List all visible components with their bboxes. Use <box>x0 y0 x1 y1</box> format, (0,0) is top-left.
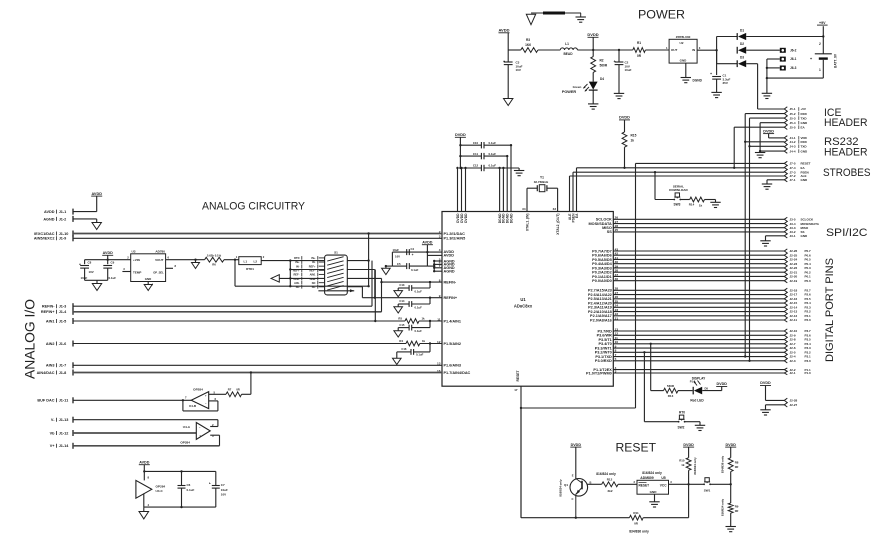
wire U3 OP_SEL stub <box>166 267 173 269</box>
diode D3 <box>716 50 718 64</box>
svg-text:DVDD: DVDD <box>571 443 582 447</box>
svg-text:560R: 560R <box>600 63 608 67</box>
svg-text:U4-B: U4-B <box>189 404 197 408</box>
svg-text:0.1uF: 0.1uF <box>411 268 419 272</box>
svg-text:AVDD: AVDD <box>444 254 455 258</box>
svg-text:1k: 1k <box>422 339 426 343</box>
svg-text:P1.7/AIN4/DAC: P1.7/AIN4/DAC <box>444 371 471 375</box>
wire RESET pin down <box>520 386 522 518</box>
svg-text:OP284: OP284 <box>180 441 190 445</box>
svg-text:J1-13: J1-13 <box>59 418 69 422</box>
svg-text:REFIN+: REFIN+ <box>444 296 458 300</box>
wire U3 TEMP stub <box>122 271 130 273</box>
wire AIN1 jog <box>374 270 376 322</box>
svg-text:SW1: SW1 <box>704 489 711 493</box>
wire AIN2 line <box>73 343 406 345</box>
svg-text:L1: L1 <box>565 42 569 46</box>
svg-text:TXD: TXD <box>801 145 808 149</box>
svg-text:VOUT: VOUT <box>155 258 164 262</box>
capacitor C5 <box>392 265 406 267</box>
svg-text:32.768kHz: 32.768kHz <box>534 180 549 184</box>
svg-text:C8: C8 <box>88 261 92 265</box>
wire P2.4 <box>613 302 784 304</box>
svg-text:+: + <box>503 60 505 64</box>
IC U3 AD780 <box>131 254 166 282</box>
wire P2.0 <box>613 319 784 321</box>
crystal Y1 32.768kHz <box>526 188 528 211</box>
svg-text:HEADER: HEADER <box>824 146 868 158</box>
svg-text:J7-4: J7-4 <box>790 166 796 170</box>
op-amp U4-A OP284 <box>196 423 210 440</box>
svg-text:AIN-: AIN- <box>294 281 299 285</box>
connector J6-3 pad <box>780 66 786 71</box>
wire Vb line <box>73 432 196 434</box>
wire RESET vertical net <box>635 163 637 408</box>
svg-text:J5-3: J5-3 <box>790 116 796 120</box>
wire S1 row B drop <box>374 270 376 298</box>
svg-text:U3: U3 <box>132 249 136 253</box>
wire S1 row C drop <box>381 278 383 311</box>
svg-text:U4-C: U4-C <box>156 489 164 493</box>
wire SPI GND <box>766 235 785 237</box>
svg-text:D4: D4 <box>600 77 604 81</box>
svg-text:R10: R10 <box>679 458 685 462</box>
wire DGND pins to caps <box>499 168 501 212</box>
ground J1-2 <box>92 223 101 230</box>
regulator U2 ZR78L030 <box>669 39 697 63</box>
svg-text:P1.0/T2/PWM0: P1.0/T2/PWM0 <box>586 371 612 375</box>
battery BATT_9V <box>822 26 824 53</box>
svg-text:5.62k 0.1%: 5.62k 0.1% <box>207 254 222 258</box>
svg-text:REFIN-: REFIN- <box>444 280 457 284</box>
wire strobe GND <box>767 179 784 181</box>
svg-text:10uF: 10uF <box>625 68 632 72</box>
ground below C3 <box>504 99 513 106</box>
ground decoupling <box>518 168 520 171</box>
svg-text:J6-2: J6-2 <box>790 48 797 52</box>
svg-text:1k: 1k <box>699 204 703 208</box>
wire ICE +5V <box>758 108 785 110</box>
svg-text:AIN5/IEXC2: AIN5/IEXC2 <box>34 237 55 241</box>
svg-text:DGND: DGND <box>509 213 513 223</box>
svg-text:GND: GND <box>801 149 809 153</box>
connector J4 RS232 bracket <box>784 136 787 154</box>
wire R11 to node <box>643 517 688 519</box>
svg-text:816/824 only: 816/824 only <box>596 472 616 476</box>
svg-text:J1-4: J1-4 <box>59 310 67 314</box>
svg-text:P0.0: P0.0 <box>805 279 812 283</box>
wire PSEN pin up <box>572 172 574 211</box>
wire D4 to ground <box>592 91 594 104</box>
capacitor C6 <box>181 471 183 485</box>
svg-text:AD780: AD780 <box>155 249 165 253</box>
node P3.4 display tap <box>650 343 652 345</box>
wire P3.3 <box>613 347 784 349</box>
wire R6 to RTD1 <box>224 259 239 261</box>
svg-text:-: - <box>199 425 200 429</box>
wire P2.2 <box>613 311 784 313</box>
svg-text:J1-12: J1-12 <box>59 431 69 435</box>
wire U4-A pin2 wrap <box>217 420 219 427</box>
svg-text:C4: C4 <box>411 247 415 251</box>
svg-text:4: 4 <box>439 248 441 252</box>
svg-text:J4-4: J4-4 <box>790 149 796 153</box>
svg-text:REF+: REF+ <box>309 264 316 268</box>
wire REFIN- jog up <box>371 261 373 307</box>
svg-text:36: 36 <box>615 277 619 281</box>
svg-text:IEXC1/DAC: IEXC1/DAC <box>34 232 55 236</box>
svg-text:J1-9: J1-9 <box>59 237 67 241</box>
svg-text:+: + <box>710 72 712 76</box>
wire P3.5 <box>613 339 784 341</box>
svg-text:U4-A: U4-A <box>183 425 191 429</box>
svg-text:33: 33 <box>553 207 557 211</box>
display circuit wire <box>651 390 664 392</box>
svg-text:RESET: RESET <box>516 371 520 382</box>
resistor R4 <box>406 341 420 346</box>
wire SCLOCK <box>613 218 784 220</box>
IC U1 ADuC8xx body <box>442 212 613 387</box>
svg-text:D2: D2 <box>740 42 744 46</box>
svg-text:P1.5/AIN2: P1.5/AIN2 <box>444 342 462 346</box>
svg-text:S1: S1 <box>334 251 338 255</box>
svg-text:J5-1: J5-1 <box>790 107 796 111</box>
svg-text:ANALOG I/O: ANALOG I/O <box>23 299 38 379</box>
wire U4-C top rail <box>144 470 216 472</box>
svg-text:Y1: Y1 <box>540 175 544 179</box>
wire S1 out row A <box>347 260 368 262</box>
svg-text:+9V: +9V <box>819 21 826 25</box>
svg-text:SPI/I2C: SPI/I2C <box>826 227 868 239</box>
svg-text:J1-1: J1-1 <box>59 210 67 214</box>
svg-text:OP_SEL: OP_SEL <box>153 270 164 274</box>
wire strobe PSEN <box>573 171 784 173</box>
wire SW2 to ground <box>685 421 700 423</box>
svg-text:B: B <box>590 480 592 484</box>
wire U3 VOUT <box>166 259 205 261</box>
wire IEXC1/DAC line <box>73 233 442 235</box>
svg-text:R9: R9 <box>735 504 739 508</box>
svg-text:J2-11: J2-11 <box>790 318 798 322</box>
svg-text:E: E <box>572 474 574 478</box>
wire DVDD pins to rail <box>457 168 459 212</box>
svg-text:0.1uF: 0.1uF <box>489 141 497 145</box>
svg-text:AGND: AGND <box>43 217 54 221</box>
svg-text:0.1uF: 0.1uF <box>489 152 497 156</box>
wire RXD vertical to P3.1 <box>744 114 746 357</box>
svg-text:+: + <box>209 481 211 485</box>
svg-text:IN-: IN- <box>312 260 316 264</box>
svg-text:J5-4: J5-4 <box>790 121 796 125</box>
connector J2 P0 bracket <box>784 249 787 283</box>
svg-text:DVDD: DVDD <box>455 133 466 137</box>
ground R9 <box>726 526 736 528</box>
wire S1 row A drop <box>368 261 370 287</box>
connector J7 strobes bracket <box>784 161 787 182</box>
arrow NC marker <box>271 275 279 282</box>
wire AGND tie <box>427 265 434 267</box>
svg-text:IN+: IN+ <box>311 256 316 260</box>
svg-text:10uF: 10uF <box>392 248 399 252</box>
svg-text:AIN3: AIN3 <box>46 364 55 368</box>
ground below C1 <box>711 91 721 93</box>
wire LED to DVDD <box>702 390 722 392</box>
IC U5 ADM809 <box>637 480 669 494</box>
wire AVDD pin row 1 <box>392 251 442 253</box>
svg-text:J6-1: J6-1 <box>790 57 797 61</box>
wire U4-C bottom <box>143 493 145 507</box>
svg-text:R15: R15 <box>631 134 637 138</box>
svg-text:R14: R14 <box>689 202 695 206</box>
svg-text:GND: GND <box>650 490 658 494</box>
wire R12 to U5 <box>618 483 637 485</box>
svg-text:P0.0/A0/D0: P0.0/A0/D0 <box>592 279 612 283</box>
svg-text:0.1uF: 0.1uF <box>416 353 424 357</box>
svg-text:1k: 1k <box>681 463 685 467</box>
svg-text:Red LED: Red LED <box>690 399 704 403</box>
diode D2 <box>736 47 738 54</box>
svg-text:AVDD: AVDD <box>422 240 433 244</box>
wire AIN3 line <box>73 364 442 366</box>
svg-text:35V: 35V <box>723 81 728 85</box>
ground below C2 <box>614 92 624 94</box>
inductor L1 BEAD <box>560 48 577 50</box>
svg-text:J7-1: J7-1 <box>790 178 796 182</box>
wire REFIN- J1 line <box>73 305 372 307</box>
connector J6-2 pad <box>780 48 786 53</box>
svg-text:3: 3 <box>615 369 617 373</box>
capacitor C7 <box>215 471 217 485</box>
svg-text:R11: R11 <box>633 511 639 515</box>
svg-text:U2: U2 <box>680 41 684 45</box>
svg-text:R7: R7 <box>228 387 232 391</box>
svg-text:P2.0/A8/A16: P2.0/A8/A16 <box>590 318 612 322</box>
svg-text:P1.3/I2/AIN5: P1.3/I2/AIN5 <box>444 237 466 241</box>
svg-text:+5V: +5V <box>801 107 806 111</box>
svg-text:J6-3: J6-3 <box>790 66 797 70</box>
resistor R3 <box>521 48 538 53</box>
svg-text:IN-: IN- <box>296 264 300 268</box>
wire P3.4 <box>613 343 784 345</box>
connector J6-1 pad <box>780 57 786 62</box>
svg-text:GND: GND <box>801 121 809 125</box>
svg-text:DVDD: DVDD <box>725 443 736 447</box>
wire C8 C9 bottom rail <box>85 279 108 281</box>
wire J1-2 AGND <box>73 218 97 220</box>
wire R7 to AIN4 line <box>242 393 251 395</box>
svg-text:AVDD: AVDD <box>139 460 150 464</box>
ground SW2 <box>695 424 705 426</box>
svg-text:10uF: 10uF <box>81 276 88 280</box>
capacitor C10 <box>460 144 481 146</box>
svg-text:OP284: OP284 <box>193 388 203 392</box>
wire V- line <box>73 419 218 421</box>
svg-text:J7-5: J7-5 <box>790 162 796 166</box>
ground VOUT divider <box>192 263 200 269</box>
svg-text:AIN1: AIN1 <box>310 273 316 277</box>
svg-text:P1.2/I1/DAC: P1.2/I1/DAC <box>444 232 466 236</box>
svg-text:J1-7: J1-7 <box>59 364 67 368</box>
capacitor C15 <box>429 321 431 328</box>
resistor R7 0R <box>226 392 242 397</box>
svg-text:834/836 only: 834/836 only <box>629 529 649 533</box>
svg-text:DVDD: DVDD <box>587 32 598 37</box>
ground SPI <box>760 240 770 242</box>
svg-text:C14: C14 <box>399 299 405 303</box>
svg-text:GND: GND <box>801 178 809 182</box>
op-amp U4-B OP284 <box>191 392 209 409</box>
svg-text:0.1uF: 0.1uF <box>415 289 423 293</box>
wire REFIN- IC row <box>382 281 443 283</box>
svg-text:C6: C6 <box>187 483 191 487</box>
svg-text:REFIN+: REFIN+ <box>41 310 55 314</box>
svg-text:17: 17 <box>514 388 518 392</box>
wire J4-1 VDD <box>769 137 785 139</box>
svg-text:AIN2: AIN2 <box>46 342 55 346</box>
svg-text:R8: R8 <box>735 460 739 464</box>
svg-text:ADM809: ADM809 <box>640 476 653 480</box>
wire P3.7 <box>613 330 784 332</box>
ground strobes <box>762 183 772 185</box>
svg-text:C: C <box>572 497 574 501</box>
svg-text:J5-2: J5-2 <box>790 112 796 116</box>
resistor R6 5.62k <box>205 257 224 262</box>
ground U4-C <box>139 512 149 519</box>
wire AIN4/DAC line <box>73 372 442 374</box>
svg-text:D1: D1 <box>740 29 744 33</box>
wire R13 to LED <box>678 390 693 392</box>
svg-text:Q1: Q1 <box>564 483 568 487</box>
svg-text:RESET: RESET <box>616 443 657 455</box>
svg-text:RXD: RXD <box>801 140 808 144</box>
connector J5 ICE header bracket <box>784 107 787 130</box>
svg-text:BEAD: BEAD <box>563 52 573 56</box>
wire P2.3 <box>613 306 784 308</box>
inductor network RTD1 L1 L2 <box>239 257 261 265</box>
capacitor C9 <box>107 260 109 265</box>
svg-text:D5: D5 <box>705 387 709 391</box>
svg-text:C9: C9 <box>111 261 115 265</box>
svg-text:OP284: OP284 <box>156 484 166 488</box>
wire J4-2 RXD <box>745 141 784 143</box>
wire diode node vertical <box>716 37 718 51</box>
svg-text:J1-10: J1-10 <box>59 232 69 236</box>
svg-text:VCC: VCC <box>660 484 667 488</box>
svg-text:NC: NC <box>312 285 316 289</box>
wire REFIN+ IC row <box>362 297 442 299</box>
svg-text:0.1uF: 0.1uF <box>187 488 195 492</box>
wire ICE RXD <box>745 113 784 115</box>
diode D1 <box>717 36 738 38</box>
wire AD780 top rail <box>85 259 131 261</box>
wire P3.2 <box>613 351 784 353</box>
wire MISO <box>613 227 784 229</box>
svg-text:34: 34 <box>522 207 526 211</box>
svg-text:C15: C15 <box>399 323 405 327</box>
wire strobe RESET <box>636 162 785 164</box>
svg-text:+: + <box>205 394 207 398</box>
wire P1.1 <box>613 369 784 371</box>
svg-text:DIGITAL PORT PINS: DIGITAL PORT PINS <box>824 258 836 362</box>
svg-text:10uF: 10uF <box>221 488 228 492</box>
svg-text:AVDD: AVDD <box>498 28 509 33</box>
svg-text:+: + <box>199 434 201 438</box>
svg-text:SS: SS <box>607 230 613 234</box>
wire header row C <box>279 277 324 279</box>
svg-text:P3.0: P3.0 <box>805 359 812 363</box>
svg-text:816/824 only: 816/824 only <box>559 479 563 497</box>
ground C4 C5 <box>385 265 387 267</box>
wire P0.5 <box>613 258 784 260</box>
svg-text:+: + <box>412 253 414 257</box>
wire P0.1 <box>613 275 784 277</box>
wire DVDD to rail <box>592 38 594 57</box>
svg-text:Vb: Vb <box>50 431 56 435</box>
resistor R12 2k2 <box>602 482 618 487</box>
wire P0.3 <box>613 267 784 269</box>
svg-text:POWER: POWER <box>638 10 685 22</box>
ground C8 C9 <box>92 284 101 291</box>
svg-text:P2.0: P2.0 <box>805 318 812 322</box>
svg-text:TXD: TXD <box>801 116 808 120</box>
wire P0.6 <box>613 254 784 256</box>
svg-text:C10: C10 <box>473 141 479 145</box>
svg-text:J3-1: J3-1 <box>790 234 796 238</box>
svg-text:U1: U1 <box>520 297 526 302</box>
wire REFIN+ J1 line <box>73 311 382 313</box>
capacitor C16 <box>429 344 431 352</box>
svg-text:25: 25 <box>615 228 619 232</box>
svg-text:J5-5: J5-5 <box>790 125 796 129</box>
svg-text:RXD: RXD <box>801 112 808 116</box>
resistor R11 0R <box>629 515 643 520</box>
wire TXD vertical to P3.0 <box>749 118 751 361</box>
capacitor C14 <box>429 298 431 304</box>
wire R14 to ground <box>705 199 716 201</box>
svg-text:AVDD: AVDD <box>91 192 102 196</box>
svg-text:XTAL1_(IN): XTAL1_(IN) <box>525 214 529 232</box>
connector J2-28 J2-27 bracket <box>784 398 787 407</box>
svg-text:10V: 10V <box>395 255 400 259</box>
ground tie AGND-DGND <box>531 12 581 14</box>
svg-text:R1: R1 <box>637 41 641 45</box>
svg-text:21: 21 <box>615 316 619 320</box>
wire AVDD to rail <box>507 33 509 50</box>
svg-text:560R: 560R <box>667 384 675 388</box>
svg-text:P1.4/AIN1: P1.4/AIN1 <box>444 319 462 323</box>
capacitor C2 <box>618 50 620 62</box>
connector J2 P3 bracket <box>784 329 787 363</box>
svg-text:AIN4/DAC: AIN4/DAC <box>37 371 55 375</box>
wire RTD1 to header <box>261 260 324 262</box>
LED D4 green POWER <box>592 72 594 81</box>
svg-text:SW3: SW3 <box>674 203 681 207</box>
svg-text:RESET: RESET <box>639 484 650 488</box>
switch SW1 <box>703 483 705 485</box>
svg-text:J2-3: J2-3 <box>790 359 796 363</box>
svg-text:0.1uF: 0.1uF <box>109 276 117 280</box>
wire EA pin up <box>576 168 578 212</box>
wire BUF DAC line <box>73 399 191 401</box>
svg-text:TEMP: TEMP <box>133 270 141 274</box>
svg-text:J4-2: J4-2 <box>790 140 796 144</box>
wire REF rail 286 <box>235 285 369 287</box>
svg-text:816/824 only: 816/824 only <box>642 471 662 475</box>
capacitor C4 <box>391 252 393 266</box>
svg-text:AGND: AGND <box>444 270 455 274</box>
svg-text:GND: GND <box>801 234 809 238</box>
wire J1-1 AVDD <box>73 211 97 213</box>
